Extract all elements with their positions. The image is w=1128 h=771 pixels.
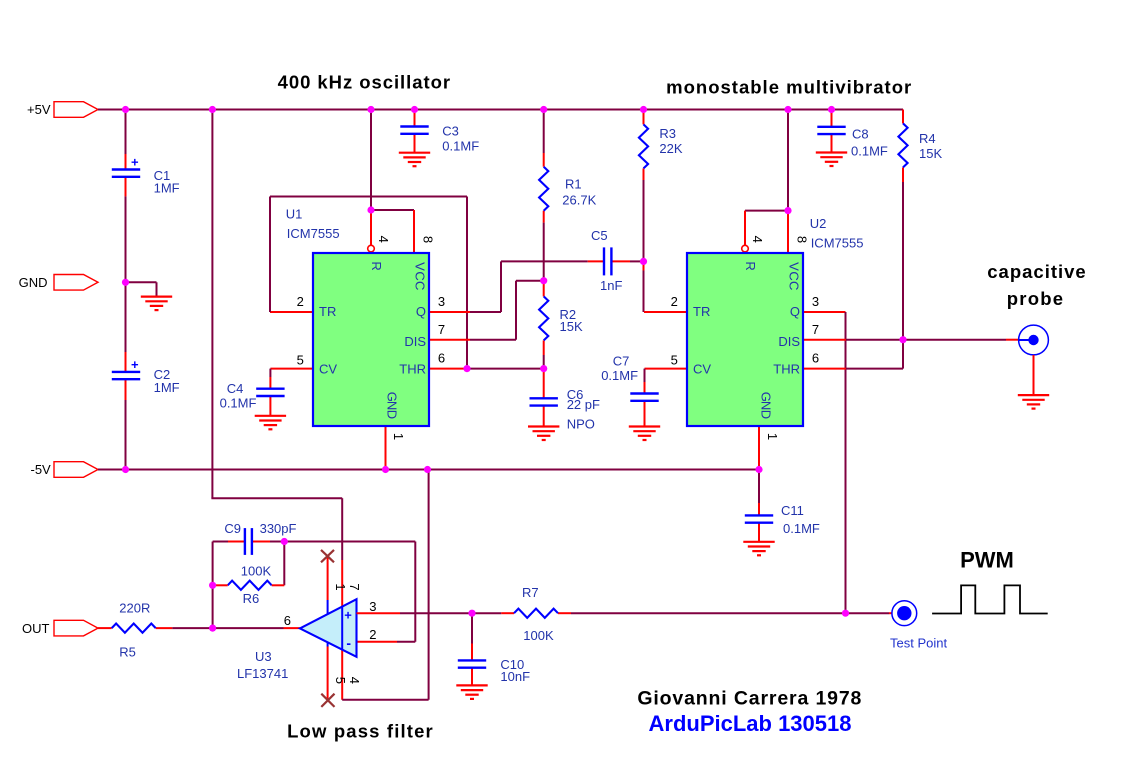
svg-text:R6: R6 bbox=[243, 591, 260, 606]
svg-text:5: 5 bbox=[333, 677, 348, 684]
svg-text:5: 5 bbox=[671, 353, 678, 368]
waveform PWM bbox=[932, 585, 1048, 613]
wire +5V drop to U3 bbox=[211, 110, 213, 499]
svg-text:C: C bbox=[412, 271, 427, 280]
wire U2 pin1 bbox=[758, 426, 760, 470]
svg-text:8: 8 bbox=[421, 236, 436, 243]
svg-text:1MF: 1MF bbox=[154, 380, 180, 395]
svg-text:400 kHz oscillator: 400 kHz oscillator bbox=[278, 72, 451, 93]
connector +5V bbox=[54, 102, 98, 118]
junction C9-R6 right bbox=[281, 538, 288, 545]
junction +5V rail / U2 pin8 feed bbox=[784, 106, 791, 113]
junction OUT / R5 / U3 output bbox=[209, 625, 216, 632]
ground C6 bbox=[528, 425, 559, 427]
svg-text:1MF: 1MF bbox=[154, 181, 180, 196]
wire +5V rail bbox=[98, 109, 903, 111]
svg-text:220R: 220R bbox=[119, 600, 150, 615]
junction R1-R2-DIS node bbox=[540, 277, 547, 284]
junction -5V rail / C2 bbox=[122, 466, 129, 473]
svg-text:R: R bbox=[369, 261, 384, 270]
svg-text:GND: GND bbox=[19, 275, 48, 290]
inversion bubble U1 pin4 bbox=[368, 245, 375, 252]
svg-text:8: 8 bbox=[795, 236, 810, 243]
capacitor C9 bbox=[244, 528, 246, 555]
no-connect X pin5 bbox=[321, 694, 334, 707]
ground C11 bbox=[743, 541, 774, 543]
resistor R5 bbox=[112, 624, 156, 633]
svg-text:ArduPicLab 130518: ArduPicLab 130518 bbox=[649, 711, 852, 736]
svg-text:4: 4 bbox=[347, 677, 362, 684]
wire U2 pin4-8 feed bbox=[787, 110, 789, 211]
resistor R3 bbox=[639, 124, 648, 168]
svg-text:probe: probe bbox=[1007, 288, 1064, 309]
junction +5V rail / C3 bbox=[411, 106, 418, 113]
svg-text:0.1MF: 0.1MF bbox=[220, 396, 257, 411]
wire R3 column bbox=[643, 110, 645, 125]
wire R6 stubs bbox=[213, 584, 228, 586]
svg-text:1nF: 1nF bbox=[600, 278, 622, 293]
svg-text:7: 7 bbox=[347, 583, 362, 590]
connector capacitive probe bbox=[1019, 325, 1049, 355]
svg-text:3: 3 bbox=[369, 599, 376, 614]
junction +5V rail / U1 pin4 feed bbox=[367, 106, 374, 113]
svg-text:6: 6 bbox=[438, 351, 445, 366]
junction R6 left / OUT column bbox=[209, 582, 216, 589]
svg-text:100K: 100K bbox=[523, 628, 554, 643]
wire U2 DIS to probe bbox=[803, 339, 846, 341]
capacitor C1 bbox=[112, 168, 140, 170]
svg-text:R5: R5 bbox=[119, 644, 136, 659]
junction +5V rail / R1 bbox=[540, 106, 547, 113]
ground C4 bbox=[255, 415, 286, 417]
inversion bubble U2 pin4 bbox=[742, 245, 749, 252]
resistor R6 bbox=[228, 581, 272, 590]
wire probe ground stub bbox=[1033, 355, 1035, 395]
connector GND bbox=[54, 275, 98, 291]
wire U1 CV bbox=[270, 368, 313, 370]
wire R7 row bbox=[472, 612, 501, 614]
svg-text:DIS: DIS bbox=[404, 334, 426, 349]
svg-text:R3: R3 bbox=[659, 126, 676, 141]
wire U1 TR loop bbox=[270, 311, 313, 313]
capacitor C6 bbox=[530, 397, 558, 399]
junction -5V rail / U2 pin1 / C11 bbox=[755, 466, 762, 473]
capacitor C4 bbox=[256, 388, 284, 390]
IC U1 ICM7555 bbox=[313, 253, 429, 426]
wire R4 column bbox=[902, 110, 904, 124]
svg-text:-5V: -5V bbox=[31, 462, 52, 477]
wire C3 stub bbox=[414, 110, 416, 127]
wire U2 THR stub bbox=[803, 368, 846, 370]
svg-text:+: + bbox=[344, 608, 352, 623]
wire U1 pin4-8 feed bbox=[370, 110, 372, 211]
svg-text:THR: THR bbox=[399, 362, 426, 377]
junction U1 THR bbox=[463, 365, 470, 372]
connector test point bbox=[892, 601, 917, 626]
junction +5V rail / C8 bbox=[828, 106, 835, 113]
capacitor C2 bbox=[112, 371, 140, 373]
ground GND connector bbox=[141, 296, 172, 298]
wire U1 DIS path bbox=[429, 339, 470, 341]
svg-text:CV: CV bbox=[319, 362, 337, 377]
svg-text:ICM7555: ICM7555 bbox=[811, 236, 864, 251]
svg-text:NPO: NPO bbox=[567, 417, 595, 432]
wire U3 pin5 bbox=[327, 642, 329, 646]
svg-text:330pF: 330pF bbox=[260, 521, 297, 536]
svg-text:TR: TR bbox=[319, 304, 336, 319]
svg-text:TR: TR bbox=[693, 304, 710, 319]
svg-text:U1: U1 bbox=[286, 207, 303, 222]
no-connect X pin1 bbox=[321, 550, 334, 562]
svg-text:monostable multivibrator: monostable multivibrator bbox=[666, 77, 912, 98]
svg-text:U2: U2 bbox=[810, 216, 827, 231]
capacitor C11 bbox=[745, 514, 773, 516]
svg-text:C: C bbox=[786, 281, 801, 290]
svg-text:7: 7 bbox=[438, 322, 445, 337]
wire U3 pin1 bbox=[327, 556, 329, 600]
wire C10 stub bbox=[471, 613, 473, 643]
svg-text:3: 3 bbox=[438, 294, 445, 309]
svg-text:CV: CV bbox=[693, 362, 711, 377]
svg-text:capacitive: capacitive bbox=[987, 261, 1086, 282]
wire GND stub bbox=[126, 281, 157, 283]
svg-text:THR: THR bbox=[773, 362, 800, 377]
svg-text:C8: C8 bbox=[852, 127, 869, 142]
wire U1 THR bbox=[429, 368, 467, 370]
svg-text:1: 1 bbox=[333, 583, 348, 590]
svg-text:Low pass filter: Low pass filter bbox=[287, 721, 434, 742]
svg-text:C5: C5 bbox=[591, 228, 608, 243]
resistor R1 bbox=[539, 167, 548, 211]
svg-text:1: 1 bbox=[765, 433, 780, 440]
svg-text:Q: Q bbox=[416, 304, 426, 319]
svg-text:C4: C4 bbox=[227, 381, 244, 396]
svg-text:R: R bbox=[743, 261, 758, 270]
capacitor C5 bbox=[603, 247, 605, 275]
wire U3 pin3 row bbox=[357, 612, 401, 614]
wire OUT row bbox=[98, 627, 112, 629]
svg-text:3: 3 bbox=[812, 294, 819, 309]
svg-text:6: 6 bbox=[284, 613, 291, 628]
svg-text:D: D bbox=[385, 410, 400, 419]
svg-text:22K: 22K bbox=[659, 141, 682, 156]
svg-text:R1: R1 bbox=[565, 177, 582, 192]
junction R7-C10-U3 pin3 node bbox=[468, 610, 475, 617]
svg-text:2: 2 bbox=[297, 294, 304, 309]
connector -5V bbox=[54, 462, 98, 478]
svg-text:C: C bbox=[412, 281, 427, 290]
junction R4-DIS-probe node bbox=[899, 336, 906, 343]
junction +5V rail / U3 supply drop bbox=[209, 106, 216, 113]
junction PWM node bbox=[842, 610, 849, 617]
svg-text:+5V: +5V bbox=[27, 102, 51, 117]
junction GND-C1-C2 bbox=[122, 279, 129, 286]
resistor R7 bbox=[514, 609, 558, 618]
resistor R2 bbox=[539, 296, 548, 340]
svg-text:0.1MF: 0.1MF bbox=[601, 368, 638, 383]
junction C5-R3-TR node bbox=[640, 258, 647, 265]
svg-text:D: D bbox=[759, 410, 774, 419]
svg-text:PWM: PWM bbox=[960, 548, 1014, 573]
svg-text:5: 5 bbox=[297, 353, 304, 368]
junction +5V rail / R3 bbox=[640, 106, 647, 113]
op-amp U3 LF13741 bbox=[300, 599, 357, 657]
svg-text:R4: R4 bbox=[919, 131, 936, 146]
junction R2-C6-THR node bbox=[540, 365, 547, 372]
junction +5V rail / C1 bbox=[122, 106, 129, 113]
svg-text:0.1MF: 0.1MF bbox=[783, 521, 820, 536]
svg-text:7: 7 bbox=[812, 322, 819, 337]
svg-text:15K: 15K bbox=[560, 319, 583, 334]
svg-text:ICM7555: ICM7555 bbox=[287, 226, 340, 241]
svg-text:Giovanni Carrera 1978: Giovanni Carrera 1978 bbox=[637, 687, 862, 709]
wire C8 stub bbox=[831, 110, 833, 127]
wire U1 pin1 bbox=[385, 426, 387, 470]
wire U2 Q to test point bbox=[803, 311, 846, 313]
svg-text:100K: 100K bbox=[241, 564, 272, 579]
junction -5V rail / U3 pin4 loop bbox=[424, 466, 431, 473]
svg-text:1: 1 bbox=[391, 433, 406, 440]
svg-text:-: - bbox=[346, 635, 351, 651]
resistor R4 bbox=[898, 123, 907, 167]
svg-text:C11: C11 bbox=[781, 503, 804, 518]
svg-text:Q: Q bbox=[790, 304, 800, 319]
svg-text:C: C bbox=[786, 271, 801, 280]
svg-text:0.1MF: 0.1MF bbox=[442, 139, 479, 154]
capacitor C8 bbox=[817, 126, 845, 128]
svg-text:U3: U3 bbox=[255, 649, 272, 664]
svg-text:22 pF: 22 pF bbox=[567, 397, 600, 412]
svg-text:Test Point: Test Point bbox=[890, 636, 947, 651]
svg-text:4: 4 bbox=[376, 236, 391, 243]
wire C9-R6 left bbox=[212, 542, 214, 629]
junction -5V rail / U1 pin1 bbox=[382, 466, 389, 473]
wire -5V rail bbox=[98, 469, 759, 471]
ground C3 bbox=[399, 152, 430, 154]
wire U1 Q to C5 bbox=[429, 311, 470, 313]
svg-text:R7: R7 bbox=[522, 585, 539, 600]
IC U2 ICM7555 bbox=[687, 253, 803, 426]
capacitor C7 bbox=[630, 392, 658, 394]
svg-text:V: V bbox=[412, 262, 427, 271]
svg-text:2: 2 bbox=[671, 294, 678, 309]
capacitor C3 bbox=[400, 125, 428, 127]
svg-text:10nF: 10nF bbox=[500, 669, 530, 684]
ground C10 bbox=[456, 684, 487, 686]
capacitor C10 bbox=[458, 659, 486, 661]
junction U1 pin4-pin8 bbox=[367, 206, 374, 213]
ground probe bbox=[1018, 394, 1049, 396]
wire C1 column bbox=[125, 110, 127, 155]
svg-text:15K: 15K bbox=[919, 146, 942, 161]
ground C8 bbox=[816, 151, 847, 153]
connector OUT bbox=[54, 620, 98, 636]
svg-text:C9: C9 bbox=[224, 521, 241, 536]
junction U2 pin4-pin8 bbox=[784, 207, 791, 214]
svg-text:OUT: OUT bbox=[22, 621, 50, 636]
svg-text:26.7K: 26.7K bbox=[562, 193, 596, 208]
svg-text:C3: C3 bbox=[442, 124, 459, 139]
svg-text:4: 4 bbox=[750, 236, 765, 243]
svg-text:6: 6 bbox=[812, 351, 819, 366]
ground C7 bbox=[629, 425, 660, 427]
svg-text:+: + bbox=[131, 357, 139, 372]
svg-text:DIS: DIS bbox=[778, 334, 800, 349]
svg-text:V: V bbox=[786, 262, 801, 271]
wire C9-R6 right bbox=[283, 542, 285, 586]
svg-text:LF13741: LF13741 bbox=[237, 666, 288, 681]
svg-text:C7: C7 bbox=[613, 353, 630, 368]
wire U2 TR stub bbox=[644, 311, 687, 313]
svg-text:+: + bbox=[131, 155, 139, 170]
wire R2 column bbox=[543, 281, 545, 297]
svg-text:2: 2 bbox=[369, 627, 376, 642]
wire U2 CV bbox=[645, 368, 688, 370]
svg-text:0.1MF: 0.1MF bbox=[851, 144, 888, 159]
wire C6 stub bbox=[543, 369, 545, 399]
wire R1 column bbox=[543, 110, 545, 154]
